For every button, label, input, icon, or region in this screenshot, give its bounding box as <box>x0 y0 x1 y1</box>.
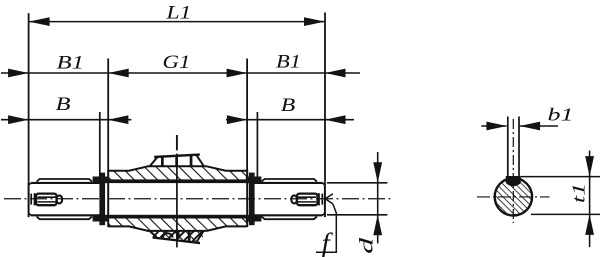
svg-text:B: B <box>281 95 296 116</box>
svg-text:d: d <box>357 237 378 254</box>
svg-text:L1: L1 <box>165 3 191 24</box>
svg-text:B1: B1 <box>57 52 85 73</box>
svg-text:B: B <box>56 94 72 115</box>
svg-text:G1: G1 <box>163 52 191 73</box>
svg-text:t1: t1 <box>568 183 588 204</box>
svg-text:B1: B1 <box>276 52 301 73</box>
svg-text:b1: b1 <box>548 104 574 124</box>
